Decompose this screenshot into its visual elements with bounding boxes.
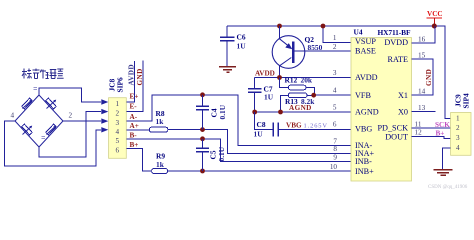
svg-text:1U: 1U [254, 130, 264, 139]
svg-text:1k: 1k [156, 160, 165, 169]
node A+ / C4 bottom junction [200, 127, 205, 132]
svg-text:C8: C8 [257, 120, 266, 129]
svg-text:X1: X1 [398, 91, 408, 100]
svg-text:SCK: SCK [435, 121, 450, 129]
wire net B+ : JC8 pin6 down to R9 [126, 149, 151, 171]
U4 left pin numbers [330, 34, 338, 171]
svg-text:3: 3 [333, 69, 337, 77]
svg-text:HX711-BF: HX711-BF [378, 28, 411, 37]
capacitor C7 [248, 78, 274, 113]
svg-text:VSUP: VSUP [355, 37, 376, 46]
resistor R8 [149, 127, 168, 132]
svg-text:14: 14 [418, 88, 426, 96]
connector JC9 SIP4 [451, 113, 471, 156]
svg-text:15: 15 [418, 52, 426, 60]
wire DVDD pin16 to VCC rail [412, 26, 436, 43]
svg-text:11: 11 [415, 121, 422, 129]
resistor R9 [152, 169, 168, 174]
svg-text:1U: 1U [264, 93, 274, 102]
svg-text:16: 16 [418, 36, 426, 44]
capacitor C5 [196, 139, 226, 171]
node B- / C5 top junction [200, 136, 205, 141]
svg-text:3: 3 [116, 119, 120, 127]
svg-text:RATE: RATE [388, 55, 408, 64]
svg-text:R12: R12 [285, 76, 298, 85]
svg-text:0.1U: 0.1U [217, 146, 226, 161]
svg-text:GND: GND [425, 69, 433, 86]
svg-text:1.265V: 1.265V [304, 123, 328, 130]
svg-text:2: 2 [69, 112, 73, 120]
svg-text:B+: B+ [130, 141, 139, 149]
svg-text:2: 2 [333, 43, 337, 51]
strain gauge element bottom-left [22, 124, 33, 135]
wire arrow into JC8 pin3 [101, 118, 108, 123]
node C7 bottom on AGND [252, 110, 257, 115]
svg-text:E+: E+ [130, 93, 139, 101]
wire net AGND to IC pin5 [255, 111, 351, 113]
svg-text:DVDD: DVDD [384, 38, 408, 47]
bridge sensor body (diamond) [15, 95, 63, 147]
svg-text:4: 4 [333, 87, 337, 95]
resistor R12 [280, 76, 315, 96]
node VFB junction R12/R13 [311, 93, 316, 98]
svg-text:AGND: AGND [355, 108, 379, 117]
wire VSUP pin1 from rail [323, 26, 351, 42]
node B+ / C5 bottom junction [200, 169, 205, 174]
svg-text:AVDD: AVDD [355, 73, 378, 82]
svg-text:1U: 1U [237, 42, 247, 51]
svg-text:AGND: AGND [289, 104, 312, 112]
svg-text:A+: A+ [130, 122, 139, 130]
strain gauge element bottom-right [46, 124, 57, 135]
svg-text:4: 4 [456, 144, 460, 152]
U4 left pin names [355, 37, 379, 176]
wire X0 pin13 stub [412, 111, 436, 113]
transistor Q2 8550 (PNP) [272, 26, 351, 78]
bridge terminal mark bottom [42, 136, 46, 138]
svg-text:8550: 8550 [308, 43, 323, 52]
svg-text:B-: B- [130, 131, 138, 139]
svg-text:3: 3 [456, 134, 460, 142]
svg-text:1: 1 [333, 34, 337, 42]
wire arrow into JC8 pin4 [101, 127, 108, 132]
svg-text:8: 8 [333, 145, 337, 153]
svg-text:2: 2 [116, 110, 120, 118]
svg-text:5: 5 [333, 104, 337, 112]
svg-text:1k: 1k [156, 117, 165, 126]
wire PD_SCK pin11 to JC9 pin2 [412, 127, 451, 129]
svg-text:1: 1 [116, 100, 120, 108]
node AVDD junction [277, 75, 282, 80]
wire net B- : JC8 pin5 to IC pin9 INB- [126, 139, 351, 162]
ground below C6 [219, 67, 236, 73]
wire net AVDD to IC pin3 [255, 77, 351, 79]
svg-text:6: 6 [333, 121, 337, 129]
resistor R13 [281, 93, 316, 112]
svg-text:4: 4 [11, 112, 15, 120]
capacitor C8 [254, 112, 352, 139]
svg-text:BASE: BASE [355, 47, 376, 56]
wire net A+ : JC8 pin4 to R8 [126, 129, 149, 131]
bridge terminal mark top [34, 87, 38, 89]
svg-text:DOUT: DOUT [385, 133, 408, 142]
wire arrow into JC8 pin1 [101, 99, 108, 104]
svg-text:X0: X0 [398, 108, 408, 117]
svg-text:CSDN @qq_41906: CSDN @qq_41906 [428, 185, 468, 190]
svg-text:VFB: VFB [355, 91, 371, 100]
svg-text:A-: A- [130, 113, 138, 121]
svg-text:GND: GND [136, 68, 144, 85]
svg-text:12: 12 [415, 129, 423, 137]
op-amp U4 HX711-BF (IC body) [351, 28, 412, 182]
wire DOUT pin12 to JC9 pin3 [412, 137, 451, 139]
node VSUP junction on rail [321, 24, 326, 29]
svg-text:PD_SCK: PD_SCK [378, 124, 409, 133]
svg-text:INB-: INB- [355, 157, 372, 166]
wire JC9 pin4 to ground [442, 148, 450, 169]
wire R8 to IC pin8 INA+ [168, 130, 351, 154]
ground below JC9 [434, 170, 453, 176]
strain gauge element top-left [22, 98, 33, 109]
power symbol VCC [427, 10, 443, 29]
wire JC8 pin1 to AVDD stub [126, 61, 134, 102]
svg-text:6: 6 [116, 147, 120, 155]
svg-text:VBG: VBG [355, 125, 372, 134]
wire bridge left terminal to JC8 pin4 [5, 121, 101, 166]
svg-text:13: 13 [418, 104, 426, 112]
node A- / C4 top junction [200, 92, 205, 97]
svg-text:AVDD: AVDD [255, 69, 275, 77]
svg-text:SIP4: SIP4 [462, 93, 471, 109]
svg-text:9: 9 [333, 154, 337, 162]
capacitor C4 [196, 95, 227, 130]
svg-text:VBG: VBG [286, 122, 302, 130]
svg-text:5: 5 [116, 137, 120, 145]
wire net VFB to IC pin4 [314, 94, 351, 96]
wire arrow into JC8 pin2 [101, 109, 108, 114]
node R13 bottom on AGND [278, 110, 283, 115]
capacitor C6 [220, 26, 246, 66]
wire bridge top terminal to JC8 pin1 [39, 88, 101, 102]
svg-text:20k: 20k [301, 76, 313, 85]
U4 right pin names [378, 38, 409, 141]
U4 right pin numbers [415, 36, 426, 137]
strain gauge element top-right [46, 98, 57, 109]
svg-text:1: 1 [456, 114, 460, 122]
node Q2 emitter junction on rail [277, 24, 282, 29]
wire bridge right terminal to JC8 pin3 [63, 120, 101, 122]
svg-text:INB+: INB+ [355, 167, 374, 176]
svg-text:10: 10 [330, 163, 338, 171]
wire bridge bottom terminal to JC8 pin2 [39, 112, 101, 157]
svg-text:B+: B+ [436, 130, 445, 138]
svg-text:0.1U: 0.1U [218, 104, 227, 119]
svg-text:C6: C6 [237, 33, 246, 42]
wire RATE pin15 to X1 pin14 (GND net) [412, 59, 434, 95]
svg-text:VCC: VCC [427, 10, 443, 18]
wire R9 to IC pin10 INB+ [168, 170, 352, 172]
svg-text:E-: E- [130, 102, 138, 110]
title 桥式传感器 (bridge sensor caption, drawn strokes) [22, 69, 64, 79]
connector JC8 SIP6 [109, 98, 127, 159]
wire JC8 pin2 to GND stub [126, 61, 143, 112]
svg-text:2: 2 [456, 124, 460, 132]
svg-text:AVDD: AVDD [128, 64, 136, 85]
VCC power rail [227, 26, 451, 119]
wire net A- : JC8 pin3 to IC pin7 INA- [126, 95, 351, 146]
svg-text:4: 4 [116, 128, 120, 136]
svg-text:U4: U4 [354, 28, 363, 37]
svg-text:SIP6: SIP6 [116, 77, 125, 93]
